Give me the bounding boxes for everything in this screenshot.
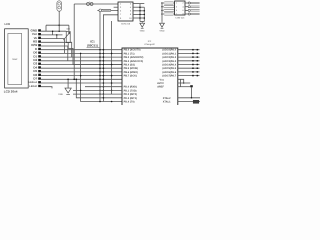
svg-text:(ADC5)PA.5: (ADC5)PA.5 [162,67,176,70]
junction row18 x103.4 [103,97,105,99]
junction ground tap [67,78,69,80]
junction row7 x103.4 [103,56,105,58]
terminal pad PA0 a [192,49,194,51]
resonator C2 left stub [97,9,99,11]
wire row D3 [41,64,122,66]
terminal pad PA3 a [192,60,194,62]
wire C2 to CON10 [111,9,118,11]
svg-text:PB.1 (T1): PB.1 (T1) [124,52,135,55]
wire PA0 row [178,49,200,51]
LCD pin pad LED-K [38,85,41,87]
cap block right [190,85,193,87]
terminal pad PA4 b [197,64,199,66]
LCD pin pad Vcc [38,33,41,35]
junction rail/capsule [58,24,60,26]
input slot terminal 3 [164,9,175,11]
junction row11 x100 [99,71,101,73]
wire CON10 right stub [133,3,144,5]
wire ULN out stub 4 [185,13,188,15]
junction xtal [191,97,193,99]
LCD pin pad D3 [38,63,41,65]
svg-text:4: 4 [182,5,184,8]
svg-text:GND: GND [58,93,63,96]
input slot terminal 1 [164,2,175,4]
svg-text:Vcc: Vcc [160,78,165,81]
junction row13 x100 [99,79,101,81]
svg-text:PB.3 (AIN1/OC0): PB.3 (AIN1/OC0) [124,60,144,63]
svg-text:PB.0 (XCK/T0): PB.0 (XCK/T0) [124,49,141,52]
resonator C2 body [102,9,111,11]
wire MCU row r17 [73,93,122,95]
svg-text:LCD 20x4: LCD 20x4 [4,90,18,94]
LCD pin pad D2 [38,59,41,61]
wire LED-K row [41,87,52,89]
junction row17 x100 [99,93,101,95]
svg-text:(ADC6)PA.6: (ADC6)PA.6 [162,71,176,74]
svg-text:LED-K: LED-K [29,85,37,88]
wire PA5 row [178,67,200,69]
junction row9 x103.4 [103,64,105,66]
terminal pad PA2 b [197,56,199,58]
wire row D1 [41,56,122,58]
wire AVCC right stub [178,82,190,84]
crystal X1 circles on rail [87,3,90,6]
svg-text:3: 3 [120,6,122,9]
svg-text:PB.6 (MISO): PB.6 (MISO) [124,71,138,74]
svg-text:(ADC4)PA.4: (ADC4)PA.4 [162,63,176,66]
wire mid drop v_b [81,53,122,101]
junction CON10 b [144,10,146,12]
svg-text:CON-2x4: CON-2x4 [175,17,185,20]
svg-text:GND: GND [140,30,145,33]
junction row12 x111.6 [111,75,113,77]
svg-text:AVCC: AVCC [157,82,164,85]
junction v_b top [80,53,82,55]
terminal pad PA2 a [192,56,194,58]
junction CON10 [139,10,141,12]
wire ULN output pair 2 [190,5,199,7]
terminal pad PA6 b [197,71,199,73]
wire row D7 [41,78,122,80]
LCD pin pad D0 [38,52,41,54]
junction row14 x111.6 [111,82,113,84]
wire E row [41,49,122,51]
wire row D4 [41,67,122,69]
wire row D5 [41,71,122,73]
junction ULN left row 4 [161,13,163,15]
wire jog Vcc-Vo [56,35,58,39]
junction CON10 b [144,14,146,16]
junction row5 x100 [99,49,101,51]
terminal pad PA5 a [192,67,194,69]
wire ULN out stub 3 [185,9,188,11]
resonator C2 inner line [103,9,110,11]
junction capsule/GND row [58,30,60,32]
svg-text:9: 9 [120,17,122,20]
svg-text:PB.7 (SCK): PB.7 (SCK) [124,75,137,78]
bus vertical ULN left rail [161,3,163,22]
svg-text:IC2: IC2 [148,40,152,43]
wire row D0 [41,52,122,54]
junction row16 x103.4 [103,90,105,92]
svg-text:(ADC1)PA.1: (ADC1)PA.1 [162,52,176,55]
bus vertical right lower [179,79,181,86]
terminal pad PA0 b [197,49,199,51]
wire CON10 right stub [133,10,144,12]
output circle terminal 4 [188,13,190,15]
connector CON10 box [118,2,133,21]
wire CON10 left stub row2 [114,6,118,8]
wire GND row [41,30,66,32]
wire CON10 right stub [133,13,144,15]
junction CON10 [139,6,141,8]
op MCU IC2 box [122,48,178,106]
wire row D6 [41,75,122,77]
driver ULN2803 box [175,1,185,15]
wire PA4 row [178,64,200,66]
junction v_c top [75,78,77,80]
junction jog a [52,30,54,32]
terminal pad PA3 b [197,60,199,62]
svg-text:CON-2x5: CON-2x5 [121,22,131,25]
svg-text:PB.5 (MOSI): PB.5 (MOSI) [124,67,138,70]
ground symbol ULN [161,22,163,24]
svg-text:D7: D7 [33,77,37,81]
junction CON10 [139,14,141,16]
LCD module outer box [5,29,29,88]
svg-text:6: 6 [182,9,184,12]
output circle terminal 1 [188,2,190,4]
svg-text:1: 1 [176,2,178,5]
svg-text:PD.1 (TXD): PD.1 (TXD) [124,89,137,92]
svg-text:PD.3 (INT1): PD.3 (INT1) [124,97,138,100]
svg-text:(ADC3)PA.3: (ADC3)PA.3 [162,60,176,63]
wire R/W row stair [41,46,68,61]
junction row10 x103.4 [103,67,105,69]
wire top rail drop (left) [73,4,75,79]
wire PA6 row [178,71,200,73]
junction row15 x103.4 [103,86,105,88]
wire PA7 row [178,75,200,77]
wire PA2 row [178,56,200,58]
terminal pad PA1 b [197,53,199,55]
svg-text:2: 2 [130,2,132,5]
svg-text:8: 8 [130,13,132,16]
wire PA3 row [178,60,200,62]
wire ULN output pair 1 [190,1,199,3]
wire cap drop [191,87,193,98]
junction row8 x103.4 [103,60,105,62]
LCD pin pad LED+A [38,81,41,83]
terminal pad PA6 a [192,71,194,73]
junction ULN left row 3 [161,10,163,12]
LCD pin pad GND [38,29,41,31]
wire PA1 row [178,52,200,54]
junction row11 x103.4 [103,71,105,73]
svg-text:7: 7 [120,13,122,16]
junction ULN left row 1 [161,2,163,4]
LCD pin pad D7 [38,77,41,79]
svg-text:5: 5 [120,10,122,13]
LCD pin pad D5 [38,70,41,72]
wire row D2 [41,60,122,62]
svg-text:AREF: AREF [157,86,164,89]
wire Vcc right stub [178,79,184,83]
output circle terminal 3 [188,9,190,11]
wire pot top [68,25,70,31]
junction row13 x103.4 [103,79,105,81]
svg-text:PB.2 (AIN0/INT2): PB.2 (AIN0/INT2) [124,56,144,59]
wire drop x111.6 [111,21,113,94]
wire pot bottom path [68,43,122,65]
svg-text:10: 10 [129,17,132,20]
junction top-rail drop [73,78,75,80]
LCD pin pad D1 [38,55,41,57]
junction row6 x111.6 [111,53,113,55]
svg-text:5: 5 [176,9,178,12]
svg-text:1: 1 [120,2,122,5]
potentiometer wiper arrow [63,33,69,40]
svg-text:16x2: 16x2 [12,58,18,61]
wire C1 lead down [58,11,60,31]
svg-text:LCD: LCD [5,23,11,26]
wire ground merge [140,21,144,23]
junction row19 x100 [99,101,101,103]
wire drop v_c [76,79,122,98]
junction row9 x111.6 [111,64,113,66]
wire LED+A row [41,82,122,84]
wire jog GND-Vcc [52,31,54,35]
wire top rail [74,3,118,5]
potentiometer VR1 body [66,32,70,43]
LCD screen inner box [8,34,22,85]
junction row12 x103.4 [103,75,105,77]
junction row6 x103.4 [103,53,105,55]
svg-text:3: 3 [176,5,178,8]
wire XTAL2 stub [178,97,200,99]
label IC1 underline [87,47,100,49]
bus vertical 140 [139,4,141,22]
LCD pin pad Vo [38,37,41,39]
svg-text:LED+A: LED+A [29,81,38,84]
wire Vcc row [41,34,63,36]
wire ULN output pair 4 [190,12,199,14]
wire MCU row r15 [85,86,122,88]
junction row17 x103.4 [103,93,105,95]
wire ULN out stub 1 [185,2,188,4]
svg-text:ATmega32: ATmega32 [144,43,155,46]
crystal block bottom right [193,100,199,103]
junction v_b mid [80,75,82,77]
junction CON10 [139,17,141,19]
junction row16 x100 [99,90,101,92]
junction ULN left row 2 [161,6,163,8]
LCD pin pad D6 [38,74,41,76]
capacitor C1 detail circles [58,2,61,5]
bus vertical 144.3 [143,7,145,21]
input slot terminal 4 [164,13,175,15]
svg-text:PD.4 (T0): PD.4 (T0) [124,100,135,103]
junction row15 x100 [99,86,101,88]
wire CON10 right stub [133,17,144,19]
wire C2 drop [99,12,101,102]
wire XTAL1 stub [178,101,200,103]
svg-text:(ADC7)PA.7: (ADC7)PA.7 [162,75,176,78]
input slot terminal 2 [164,6,175,8]
svg-text:GND: GND [160,30,165,33]
capacitor C1 body [57,1,62,11]
junction row12 x100 [99,75,101,77]
terminal pad PA7 a [192,75,194,77]
wire rail drop to GND row [45,25,47,31]
terminal pad PA1 a [192,53,194,55]
svg-text:6: 6 [130,10,132,13]
svg-text:XTAL2: XTAL2 [163,97,171,100]
wire RS row stair [41,42,72,57]
junction CON10 b [144,17,146,19]
wire CON10 right stub [133,6,144,8]
wire Vo row stair [41,39,65,54]
output circle terminal 2 [188,6,190,8]
junction row9 x100 [99,64,101,66]
junction r16 [80,90,82,92]
wire ULN output pair 3 [190,9,199,11]
junction row7 x100 [99,56,101,58]
svg-text:(89C51): (89C51) [87,43,98,47]
svg-text:XTAL1: XTAL1 [163,100,171,103]
junction jog b [56,34,58,36]
resonator C2 left circle [99,9,102,12]
svg-text:PD.0 (RXD): PD.0 (RXD) [124,86,137,89]
terminal pad PA4 a [192,64,194,66]
wire MCU row r16 [73,89,122,91]
svg-text:PB.4 (SS): PB.4 (SS) [124,63,135,66]
junction row19 x111.6 [111,101,113,103]
svg-text:2: 2 [182,2,184,5]
crystal X1 top tick [89,1,91,4]
junction row5 x103.4 [103,49,105,51]
junction row8 x100 [99,60,101,62]
junction Vcc/AVCC [183,82,185,84]
LCD pin pad RS [38,40,41,42]
wire corner drop x103 [103,15,118,102]
terminal pad PA5 b [197,67,199,69]
LCD pin pad R/W [38,44,41,46]
LCD pin pad D4 [38,66,41,68]
wire supply rail [46,24,69,26]
wire AREF right stub [178,86,190,88]
junction row14 x103.4 [103,82,105,84]
wire ULN out stub 2 [185,6,188,8]
junction row16 x111.6 [111,90,113,92]
junction row6 x100 [99,53,101,55]
svg-text:PD.2 (INT0): PD.2 (INT0) [124,93,138,96]
svg-text:(ADC2)PA.2: (ADC2)PA.2 [162,56,176,59]
junction row10 x100 [99,67,101,69]
ground symbol below D7 rail [67,79,69,88]
LCD pin pad E [38,48,41,50]
svg-text:4: 4 [130,6,132,9]
ground symbol CON10 [141,22,143,24]
terminal pad PA7 b [197,75,199,77]
svg-text:(ADC0)PA.0: (ADC0)PA.0 [162,49,176,52]
